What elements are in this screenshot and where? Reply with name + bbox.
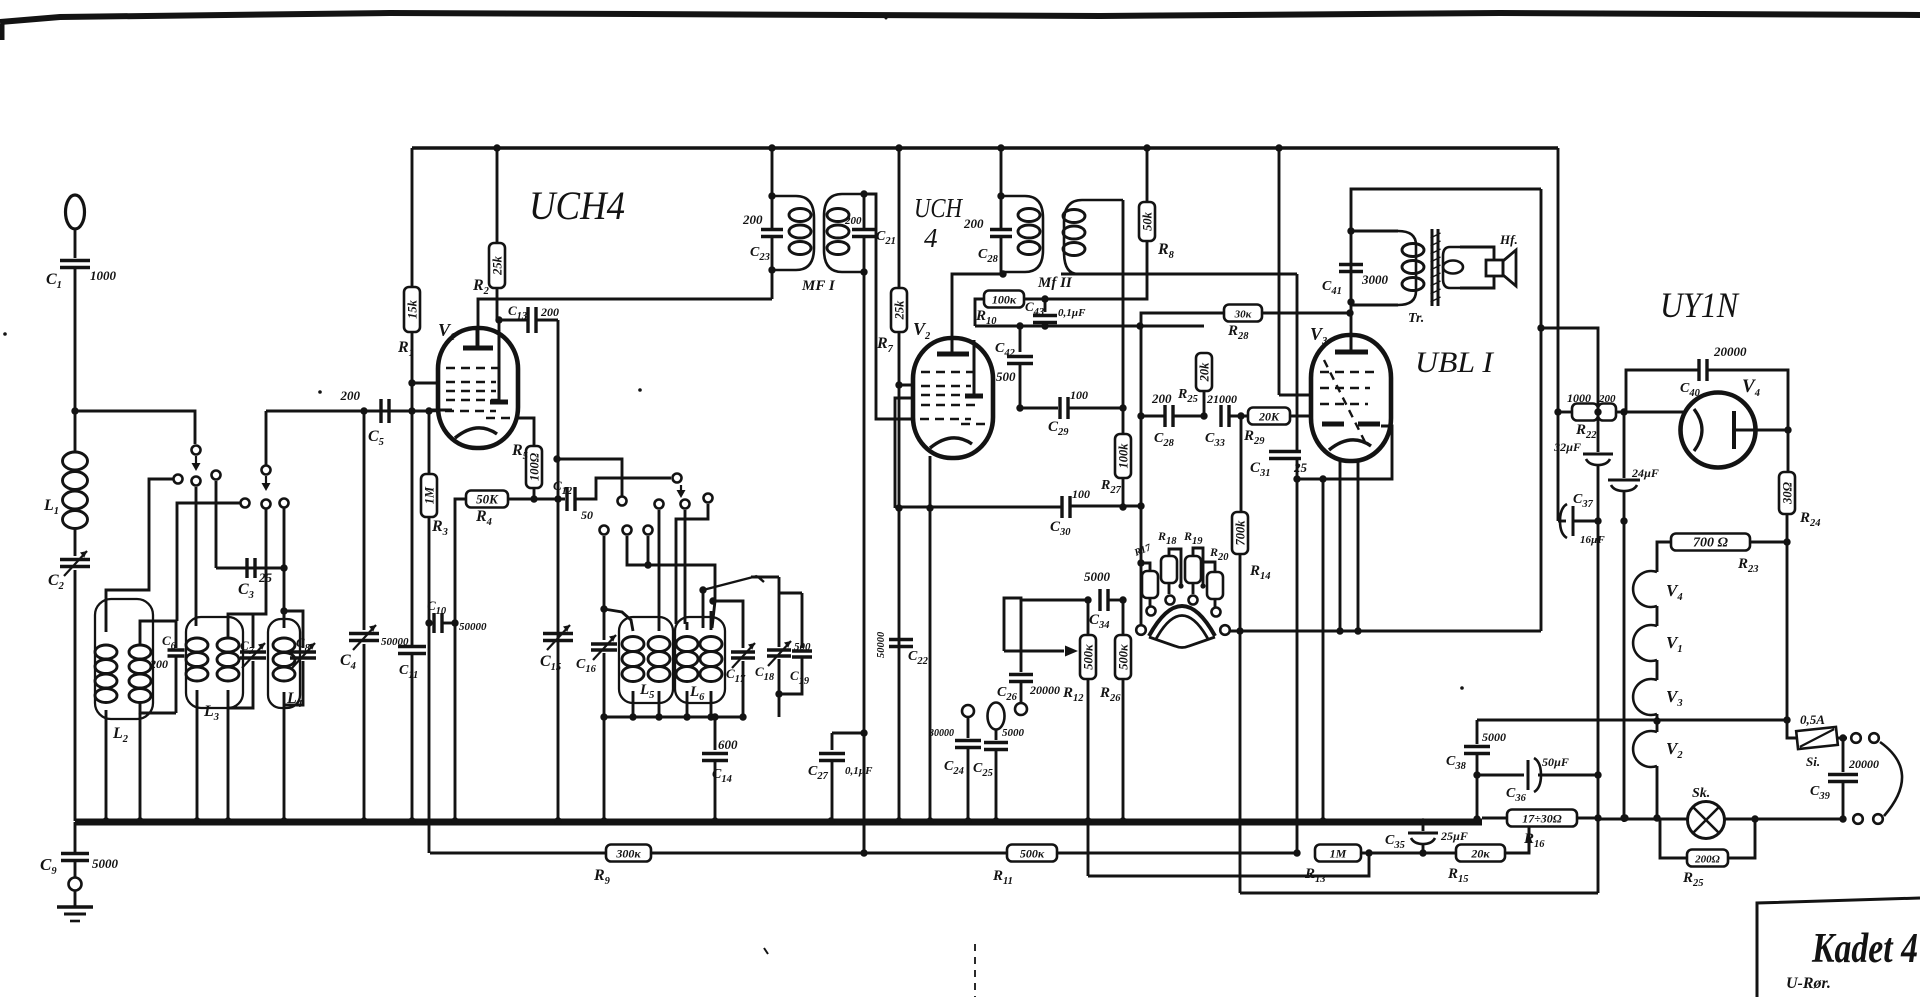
svg-text:50µF: 50µF — [1542, 755, 1569, 769]
L4 frame and C8 — [284, 611, 303, 648]
svg-text:500: 500 — [794, 641, 811, 653]
wire R23 to heater chain — [1657, 542, 1671, 572]
MFII primary winding — [1001, 196, 1043, 272]
capacitor C32 32uF — [1597, 412, 1600, 452]
svg-text:Kadet 4: Kadet 4 — [1811, 926, 1918, 972]
coil L1 — [74, 411, 77, 452]
transformer core — [1431, 229, 1434, 306]
capacitor C12 50 — [565, 487, 568, 511]
V3 anode bars — [1322, 422, 1344, 427]
capacitor C41 3000 — [1339, 263, 1363, 267]
svg-text:30000: 30000 — [928, 728, 954, 739]
capacitor C19 500 — [779, 592, 802, 595]
wire V1 bottom-left stub — [429, 409, 452, 412]
wire C1 down to node — [74, 268, 77, 413]
resistor R12 500k — [1087, 600, 1090, 635]
coil L2 right winding — [129, 645, 151, 659]
L3 frame and C7 — [228, 614, 253, 638]
V3 top cap lead — [1350, 313, 1353, 337]
svg-text:500κ: 500κ — [1117, 644, 1131, 670]
wire C12 to oscillator switch — [580, 478, 671, 499]
wire R10 right to C43 — [1024, 298, 1045, 301]
svg-text:1000: 1000 — [90, 268, 117, 283]
ground symbol — [74, 890, 77, 906]
capacitor C37 16uF — [1557, 412, 1560, 521]
capacitor C22 50000 — [889, 638, 913, 642]
oscillator coil L6 — [676, 637, 698, 652]
box leg tap to R22 — [1541, 328, 1598, 406]
variable capacitor C18 — [751, 576, 779, 579]
ground dot L4 — [280, 817, 287, 824]
resistor R3 1M — [421, 474, 437, 517]
svg-text:200: 200 — [742, 212, 763, 227]
svg-text:200: 200 — [340, 388, 361, 403]
wire into V1 grid — [412, 382, 450, 385]
filter line down right — [1597, 775, 1600, 893]
svg-text:200: 200 — [1151, 391, 1172, 406]
wire C13 down the long vertical — [557, 320, 560, 822]
feedback resistor R9 300k — [430, 852, 606, 855]
main line to lamp — [1598, 818, 1688, 821]
svg-text:Sk.: Sk. — [1692, 786, 1710, 801]
V2 anode bar — [965, 394, 983, 399]
cathode line R4 to C12 — [508, 498, 565, 501]
border hook left edge — [0, 24, 5, 40]
heater tap line — [1477, 719, 1787, 722]
MF1 primary winding — [772, 196, 814, 270]
wire C38 node to main line — [1476, 775, 1479, 818]
svg-text:15k: 15k — [406, 299, 420, 319]
svg-text:100Ω: 100Ω — [528, 452, 542, 481]
wire R7 node down to cathode line — [898, 385, 901, 508]
svg-text:24µF: 24µF — [1631, 466, 1659, 480]
svg-text:5000: 5000 — [1482, 730, 1506, 744]
wire R2 to C13 node — [496, 288, 499, 320]
mains switch lower — [1853, 814, 1863, 824]
svg-text:Mf II: Mf II — [1037, 275, 1073, 291]
wire antenna to C1 — [74, 229, 77, 258]
svg-text:UY1N: UY1N — [1660, 285, 1740, 325]
resistor R2 25k — [496, 148, 499, 243]
resistor R8 50k — [1146, 148, 1149, 202]
svg-text:25µF: 25µF — [1440, 829, 1468, 843]
output transformer Tr primary — [1351, 230, 1398, 233]
svg-text:1M: 1M — [423, 486, 437, 504]
V4 heater line down — [1786, 542, 1789, 720]
MFII secondary winding — [1061, 200, 1123, 274]
MF1 secondary winding — [824, 194, 864, 272]
wire R3 line down to feedback line R9 — [428, 623, 431, 853]
V1 cathode arc — [455, 428, 497, 438]
output box top line — [1351, 189, 1541, 231]
wire C5 node down to C4 — [363, 411, 366, 630]
svg-text:0,1µF: 0,1µF — [845, 765, 873, 777]
svg-text:700 Ω: 700 Ω — [1693, 536, 1729, 551]
svg-text:50000: 50000 — [876, 631, 887, 658]
svg-text:100: 100 — [1072, 487, 1090, 501]
resistor R18 — [1161, 556, 1177, 583]
capacitor C5 200 in antenna line — [266, 410, 364, 413]
rectifier V4 (UY1N) — [1681, 393, 1756, 468]
L3 coil former outline — [186, 617, 243, 708]
wire contact down through C3 right to L4 — [283, 508, 286, 619]
wire bus down to MF1 — [771, 148, 774, 196]
capacitor C38b 24uF — [1623, 412, 1626, 478]
oscillator coils common bottom line — [604, 716, 745, 719]
heater chain V4 V1 V3 V2 — [1633, 571, 1657, 607]
V2 top cap bar — [937, 352, 969, 357]
variable capacitor C17 — [714, 601, 743, 648]
V3 grid dashes — [1320, 371, 1375, 374]
svg-text:5000: 5000 — [92, 856, 119, 871]
svg-text:17÷30Ω: 17÷30Ω — [1522, 812, 1562, 826]
wire R12 down to feedback line — [1087, 679, 1090, 876]
svg-text:50: 50 — [581, 508, 593, 522]
lamp shunt resistor R25 200ohm — [1660, 819, 1687, 858]
capacitor C33 21000 — [1219, 405, 1222, 427]
svg-text:500κ: 500κ — [1082, 644, 1096, 670]
capacitor C13 200 — [499, 319, 528, 322]
svg-text:0,5A: 0,5A — [1800, 712, 1825, 727]
V1 top cap grid bar — [463, 346, 493, 351]
L4 coil former outline — [268, 619, 300, 708]
svg-text:Hf.: Hf. — [1499, 232, 1518, 247]
svg-text:100κ: 100κ — [992, 293, 1017, 307]
wire contact to L3 left — [195, 487, 198, 626]
wire contact down to C7 node — [253, 509, 266, 614]
V2 cathode to line — [929, 456, 932, 508]
resistor R5 100ohm — [518, 418, 534, 446]
capacitor C31 25 — [1269, 450, 1301, 454]
resistor R25 20k (vertical) — [1203, 391, 1206, 416]
svg-text:200Ω: 200Ω — [1694, 854, 1721, 866]
svg-text:5000: 5000 — [1002, 727, 1025, 739]
variable capacitor C4 50000 — [349, 632, 379, 636]
resistor R14 700k — [1232, 512, 1248, 554]
wire top bus left corner down to R1 — [411, 148, 414, 287]
svg-text:5000: 5000 — [1084, 569, 1111, 584]
AGC line down to R17 bank and tuning eye — [1140, 326, 1143, 416]
mains switch upper — [1838, 737, 1847, 740]
switch contact with arrow (band selector 2) — [262, 466, 271, 475]
svg-text:20κ: 20κ — [1470, 847, 1490, 861]
pickup jack C25 5000 — [988, 703, 1005, 730]
variable capacitor C7 — [252, 614, 255, 648]
resistor R19 — [1185, 556, 1201, 583]
output box right side — [1540, 189, 1543, 631]
output pentode V3 (UBL1) — [1311, 335, 1391, 461]
ground bus (heavy) — [75, 819, 1482, 826]
capacitor C28b 200 — [1141, 415, 1164, 418]
capacitor C34 5000 — [1004, 598, 1088, 651]
resistor R15 20k — [1423, 852, 1456, 855]
MFII secondary top to detector line — [1122, 200, 1125, 408]
V3 bottom legs — [1339, 459, 1342, 631]
capacitor C29 100 — [1020, 407, 1058, 410]
top supply bus — [412, 146, 1558, 150]
tap from B+ line to switch — [557, 459, 622, 496]
wire C27 top to AVC vertical — [832, 732, 864, 735]
V3 cathode bias line down — [1322, 479, 1325, 822]
wire V2 screen line down to C22 — [898, 508, 901, 822]
wire R8 down to R10 node — [1045, 241, 1147, 299]
wire down to C11 — [411, 383, 414, 645]
L5 tuned tap — [600, 605, 607, 612]
screen feed double line to V3 — [1278, 148, 1281, 395]
resistor R1 15k — [404, 287, 420, 332]
wire R15 to R16 tap — [1505, 828, 1529, 853]
capacitor C27 0.1uF — [831, 733, 834, 750]
capacitor C26 20000 (pickup) — [1020, 600, 1023, 672]
capacitor C36 50uF — [1477, 774, 1524, 777]
switch contact with arrow (band selector left) — [192, 446, 201, 455]
tuning meter fan — [1149, 606, 1215, 636]
wire filter节点 down — [1597, 521, 1600, 775]
svg-text:100k: 100k — [1117, 443, 1131, 469]
Kadet title box — [1757, 898, 1920, 997]
svg-text:200: 200 — [844, 215, 862, 227]
node at C1/L1 junction — [71, 407, 78, 414]
capacitor C3 25 — [216, 567, 284, 570]
osc switch contacts row — [618, 497, 627, 506]
V1 anode bar — [490, 400, 508, 405]
svg-text:16µF: 16µF — [1580, 534, 1605, 546]
V2 anode top lead to MFII — [952, 274, 1003, 345]
L2 top bar — [140, 621, 176, 645]
ground dots L3 — [193, 817, 200, 824]
resistor R10 100k — [984, 291, 1024, 308]
feedback return line — [1088, 853, 1369, 876]
svg-text:200: 200 — [149, 657, 168, 671]
resistor R23 700ohm — [1671, 534, 1750, 551]
wire R4 left leg down — [455, 499, 466, 623]
svg-text:50000: 50000 — [459, 621, 487, 633]
svg-text:4: 4 — [924, 223, 938, 253]
svg-text:UCH4: UCH4 — [529, 183, 625, 228]
pickup jack C24 30000 — [962, 705, 974, 717]
fuse Si 0.5A — [1787, 720, 1797, 738]
antenna — [66, 195, 85, 229]
capacitor C10 50000 — [432, 613, 435, 633]
MFII secondary bottom AVC line — [1061, 273, 1297, 276]
capacitor C21 across MF1 secondary — [863, 194, 866, 229]
svg-text:UBL I: UBL I — [1415, 346, 1495, 379]
resistor R11 500k — [1007, 845, 1057, 862]
AVC line crossing ground bus to R11 line — [863, 733, 866, 853]
V3 diagonal dashed line — [1324, 360, 1366, 444]
terminal circle below C9 — [74, 861, 77, 877]
svg-text:50K: 50K — [476, 492, 499, 507]
svg-text:1000: 1000 — [1567, 391, 1591, 405]
svg-text:30Ω: 30Ω — [1781, 481, 1795, 505]
capacitor C30 100 and diode line — [895, 506, 1062, 509]
capacitor C9 5000 — [74, 822, 77, 852]
V2 screen frame — [895, 398, 916, 508]
svg-text:20000: 20000 — [1848, 757, 1879, 771]
MF1 primary bottom node — [768, 266, 775, 273]
oscillator coil L5 — [622, 637, 644, 652]
V2 cathode arc — [930, 438, 972, 448]
svg-text:3000: 3000 — [1361, 272, 1389, 287]
misc specks — [3, 332, 7, 336]
wire lamp to C39 — [1724, 818, 1843, 821]
pentode-triode V2 (UCH4) — [913, 338, 993, 458]
resistor R27 100k — [1115, 434, 1131, 478]
R16 tap to R15 — [1528, 827, 1531, 853]
mains plug arc — [1880, 742, 1902, 816]
coil L2 left winding — [95, 645, 117, 659]
meter terminal left — [1136, 625, 1146, 635]
svg-text:25k: 25k — [893, 300, 907, 321]
wire V1 node to R3 — [428, 411, 431, 474]
resistor R24 30ohm — [1787, 430, 1790, 472]
svg-text:20K: 20K — [1258, 410, 1280, 424]
wire node to band switch — [75, 411, 195, 444]
paper top border line — [0, 13, 1920, 22]
svg-text:Si.: Si. — [1806, 754, 1820, 769]
wire C33 node down to R14 — [1240, 416, 1243, 512]
svg-text:200: 200 — [963, 216, 984, 231]
variable capacitor C2 — [74, 528, 77, 556]
V1 grid dashes — [446, 367, 502, 370]
svg-text:20k: 20k — [1198, 362, 1212, 383]
L6 coil former outline — [675, 617, 725, 703]
V3 grid wire — [1279, 394, 1315, 397]
V3 cathode arc — [1329, 440, 1371, 450]
wire R1 to junction — [411, 332, 414, 383]
svg-text:50k: 50k — [1141, 211, 1155, 231]
V1 grid top-cap line to MF1 — [478, 299, 772, 346]
coil L4 winding — [283, 611, 286, 628]
AVC line MF1 secondary bottom going down — [863, 272, 866, 854]
osc switch contacts row 2 — [600, 526, 609, 535]
back bias line to R13 — [1296, 479, 1299, 853]
svg-text:20000: 20000 — [1029, 683, 1060, 697]
wire bus down to MFII — [1000, 148, 1003, 196]
wire R22 to V4 filament — [1626, 411, 1684, 414]
capacitor C43 0.1uF — [1044, 299, 1047, 312]
AGC resistor R28 30k line — [1141, 313, 1224, 326]
dial lamp Sk — [1688, 802, 1725, 839]
oscillator grid line — [975, 325, 1204, 328]
resistor R20 — [1207, 572, 1223, 599]
coil L3 right winding — [217, 638, 239, 652]
L5 coil former outline — [619, 617, 673, 703]
top bus right leg down — [1557, 148, 1560, 412]
capacitor C28 200 across MFII primary — [1000, 196, 1003, 228]
padder switch arm — [703, 576, 757, 590]
resistor R4 50K — [466, 491, 508, 508]
svg-text:25: 25 — [1293, 460, 1308, 475]
svg-text:100: 100 — [1070, 388, 1088, 402]
svg-text:1M: 1M — [1330, 847, 1347, 861]
V3 cathode box — [1297, 426, 1392, 479]
switch contacts row — [174, 475, 183, 484]
wire C2 to ground bus — [74, 570, 77, 821]
speaker driver — [1460, 247, 1494, 260]
svg-text:200: 200 — [1598, 393, 1616, 405]
wire R29 to V3 — [1290, 415, 1313, 418]
L2 bottom bar — [140, 703, 176, 713]
wire R28 to V3 grid node — [1262, 312, 1350, 315]
Tr secondary and speaker — [1443, 247, 1460, 288]
svg-text:200: 200 — [540, 305, 559, 319]
resistor R7 25k — [898, 148, 901, 288]
svg-text:U-Rør.: U-Rør. — [1786, 975, 1831, 992]
wire R3 to C10 — [428, 517, 431, 623]
wire contact to L2 top bar — [177, 503, 240, 621]
V1 anode wire up to node — [498, 320, 501, 330]
resistor R29 20k (horizontal) — [1248, 408, 1290, 425]
capacitor C40 20000 — [1626, 370, 1699, 412]
variable capacitor C16 — [591, 642, 617, 646]
wire contact to C3 — [215, 481, 218, 568]
capacitor C14 600 — [714, 717, 717, 750]
variable capacitor C8 — [290, 650, 316, 654]
svg-text:30κ: 30κ — [1234, 309, 1253, 321]
svg-text:700k: 700k — [1234, 520, 1248, 546]
svg-text:UCH: UCH — [914, 193, 963, 223]
capacitor C23 200 across MF1 primary — [771, 196, 774, 228]
svg-text:0,1µF: 0,1µF — [1058, 307, 1086, 319]
bottom return line — [1240, 892, 1598, 895]
V3 top cap bar — [1335, 350, 1368, 355]
wire from contact to L2 left — [106, 479, 173, 632]
capacitor C6 200 — [175, 621, 178, 648]
svg-text:25k: 25k — [491, 255, 505, 276]
coil L3 left winding — [186, 638, 208, 652]
speaker cone — [1503, 250, 1516, 286]
capacitor C38 5000 — [1476, 720, 1479, 744]
meter terminal right — [1220, 625, 1230, 635]
svg-text:600: 600 — [718, 737, 738, 752]
switch wires down to oscillator coils — [603, 536, 606, 640]
V2 grid dashes — [921, 371, 977, 374]
detector line down to R27 — [1122, 408, 1125, 434]
ground dots L2 — [102, 817, 109, 824]
svg-text:MF I: MF I — [801, 278, 836, 294]
svg-text:300κ: 300κ — [615, 847, 641, 861]
capacitor C42 500 — [1019, 326, 1022, 352]
node R1/V1 — [408, 379, 415, 386]
wire meter right terminal to output box — [1230, 630, 1541, 633]
wire MF1 secondary top to V2 grid — [864, 194, 916, 419]
switch contact with arrow (osc) — [673, 474, 682, 483]
svg-text:500: 500 — [996, 369, 1016, 384]
volume pot arrow into R12 — [1004, 650, 1064, 653]
triode-hexode V1 (UCH4) — [438, 328, 518, 448]
variable capacitor C15 — [543, 632, 573, 636]
svg-text:Tr.: Tr. — [1408, 311, 1424, 326]
L2 coil former outline — [95, 599, 153, 719]
resistor R13 1M — [1315, 845, 1361, 862]
voltage divider R22 1000+200 — [1554, 408, 1561, 415]
svg-text:500κ: 500κ — [1020, 847, 1045, 861]
capacitor C35 25uF — [1419, 818, 1426, 825]
svg-text:21000: 21000 — [1206, 392, 1237, 406]
svg-text:25: 25 — [258, 570, 273, 585]
V4 anode wire — [1734, 429, 1788, 432]
capacitor C11 — [398, 645, 426, 649]
capacitor C39 20000 — [1842, 738, 1845, 772]
resistor R17 — [1141, 563, 1150, 571]
resistor R26 500k — [1115, 635, 1131, 679]
resistor R16 17+30ohm barretter — [1482, 817, 1507, 820]
svg-text:20000: 20000 — [1713, 344, 1747, 359]
switch contacts row 2 — [241, 499, 250, 508]
capacitor C1 1000 — [60, 259, 90, 263]
